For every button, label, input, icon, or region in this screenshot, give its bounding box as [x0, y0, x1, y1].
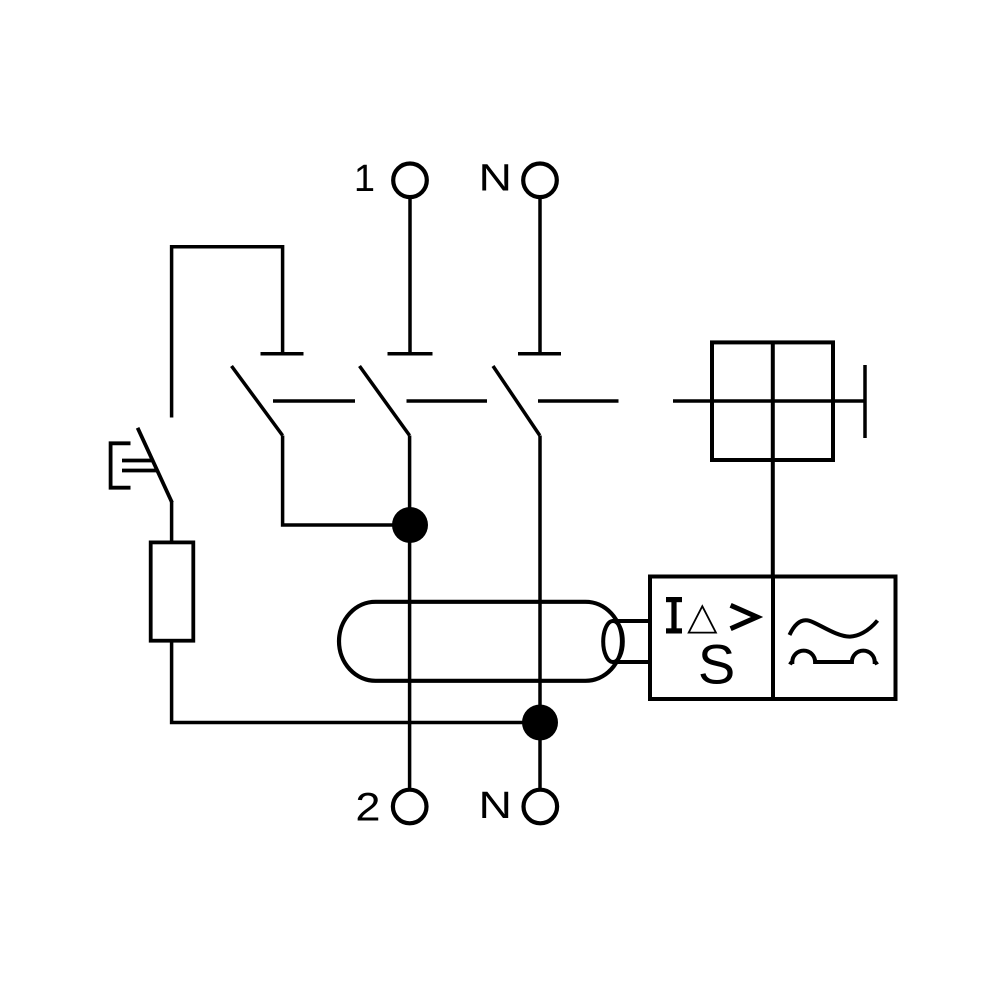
symbol I (serif) [666, 597, 682, 634]
test button bracket [111, 443, 131, 487]
mechanical linkage dash 3 [538, 399, 619, 403]
mechanical linkage dash 4 through trip box [673, 399, 864, 403]
switch blade (pole 1) [360, 366, 410, 436]
wire pole 1 vertical down to terminal 2 [408, 436, 412, 790]
test switch blade [138, 428, 172, 503]
terminal N bottom circle [524, 790, 558, 824]
wire pole N vertical down to terminal N [538, 436, 542, 790]
wire resistor to lower junction [172, 641, 540, 723]
terminal 2 bottom circle [393, 790, 427, 824]
svg-text:N: N [479, 156, 512, 198]
label 2 (bottom terminal) [355, 785, 380, 830]
test button plunger line upper [122, 459, 153, 463]
mechanical linkage dash 2 [407, 399, 488, 403]
svg-text:1: 1 [354, 158, 375, 200]
trip box center divider wire down to relay box [771, 342, 775, 577]
wire test blade to resistor [170, 501, 174, 542]
label N (top terminal) [479, 156, 512, 198]
wire test pole pivot down and over to pole 1 [283, 436, 410, 526]
symbol triangle (delta) [689, 606, 716, 632]
symbol wave (surge current) [790, 620, 878, 636]
CT secondary eyelet [603, 621, 623, 662]
junction dot upper (pole 1 / test) [392, 507, 428, 543]
terminal 1 (top circle) [393, 164, 427, 198]
svg-text:2: 2 [355, 785, 380, 830]
switch blade (test pole) [232, 366, 283, 436]
wire test loop (up-over-down) [172, 247, 283, 418]
contact seat (pole N) [518, 352, 561, 356]
contact seat (test pole) [261, 352, 304, 356]
svg-text:N: N [479, 784, 512, 826]
CT secondary lead lower [612, 660, 651, 664]
mechanical linkage dash 1 [273, 399, 355, 403]
contact seat (pole 1) [388, 352, 433, 356]
junction dot lower (pole N / test return) [522, 705, 558, 741]
current transformer core (stadium ring) [339, 602, 622, 681]
switch blade (pole N) [493, 366, 540, 436]
relay box divider [771, 577, 775, 700]
trip mechanism box (top right) [712, 342, 833, 460]
anchor bar right of trip box [863, 365, 867, 438]
label N (bottom terminal) [479, 784, 512, 826]
symbol double bump (surge filter) [790, 651, 877, 665]
CT secondary lead upper [612, 619, 651, 623]
resistor R (test resistor) [151, 542, 194, 640]
test button plunger line lower [122, 469, 158, 473]
svg-text:S: S [698, 633, 735, 696]
terminal N top circle [523, 164, 557, 198]
relay box outline [650, 577, 896, 700]
symbol greater-than [731, 605, 757, 628]
wire terminal 1 down to contact seat [408, 197, 412, 352]
wire terminal N down to contact seat [538, 197, 542, 352]
